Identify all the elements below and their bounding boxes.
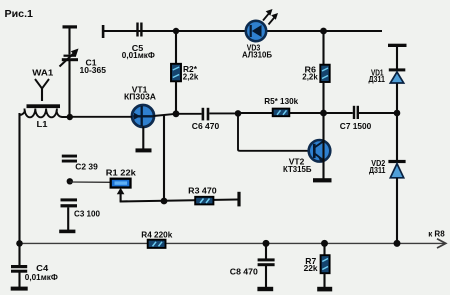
node wiper line / drain branch: [161, 198, 168, 205]
wire C1 bottom lead down to L1 node: [68, 61, 70, 117]
wire VT1 source lead: [142, 127, 144, 150]
wire R6 bottom lead: [322, 82, 324, 113]
resistor R4: [148, 240, 166, 248]
svg-text:к R8: к R8: [428, 229, 445, 239]
wire VT2 base: [238, 113, 310, 150]
wire node to C7: [324, 112, 353, 114]
svg-text:C6 470: C6 470: [192, 121, 220, 131]
wire C7 to VD node: [359, 112, 397, 114]
node L1/C1/VT1 gate: [67, 114, 73, 120]
wire C4 bottom lead: [18, 273, 20, 288]
wire node to R1: [70, 181, 111, 183]
ground C3 branch: [59, 230, 75, 234]
bottom rail arrow to R8: [437, 239, 446, 248]
wire R5 to node: [289, 112, 323, 114]
wire R6 top lead: [322, 31, 324, 65]
node R7 / rail: [321, 240, 328, 247]
node C6 / R5 / VT2 base: [235, 110, 242, 117]
node C8 / rail: [263, 240, 270, 247]
svg-text:R4 220k: R4 220k: [141, 229, 172, 239]
wire node to C6: [176, 113, 202, 115]
resistor R1 (trimmer): [111, 179, 131, 188]
capacitor C5: [136, 23, 142, 37]
wire C8 bottom lead: [265, 266, 267, 287]
ground VT2: [313, 178, 332, 182]
capacitor C6: [202, 108, 210, 121]
antenna WA1: [35, 79, 49, 101]
wire R1 wiper to R3: [120, 200, 238, 202]
svg-text:Д311: Д311: [369, 166, 386, 175]
svg-text:10-365: 10-365: [80, 65, 107, 75]
svg-text:0,01мкФ: 0,01мкФ: [122, 50, 155, 60]
svg-text:C2 39: C2 39: [75, 161, 98, 171]
wire R7 top lead: [323, 243, 325, 255]
wire C6 to R5 node: [209, 112, 238, 114]
capacitor C7: [353, 106, 359, 119]
R1 wiper arrow: [117, 188, 125, 202]
wire R2 bottom lead: [175, 81, 177, 114]
capacitor C3: [61, 198, 78, 207]
capacitor C2: [62, 155, 77, 163]
wire C3 bottom lead: [67, 207, 69, 230]
svg-text:C3 100: C3 100: [74, 209, 100, 219]
resistor R6: [320, 65, 329, 82]
svg-text:C7 1500: C7 1500: [340, 121, 372, 131]
resistor R2: [171, 64, 181, 82]
ground R7: [317, 287, 332, 292]
svg-text:Д311: Д311: [369, 75, 386, 84]
svg-text:L1: L1: [37, 119, 48, 129]
wire VD1 top lead: [396, 47, 398, 69]
wire VD1 bottom lead: [396, 84, 398, 114]
wire VT1 gate from tank: [72, 116, 132, 118]
wire bottom rail: [20, 242, 446, 244]
node C4 / rail: [16, 240, 23, 247]
ground C8: [257, 287, 273, 291]
wire C1 upper lead: [68, 28, 70, 55]
capacitor C8: [258, 258, 275, 266]
wire C4 top lead: [18, 243, 20, 265]
svg-text:R5* 130k: R5* 130k: [264, 96, 298, 106]
wire VT1 drain to node: [154, 114, 177, 116]
svg-text:Рис.1: Рис.1: [5, 8, 34, 20]
LED VD3: [246, 9, 278, 41]
node VT1 drain / R2 / C6: [173, 110, 180, 117]
node VD1 / VD2 / C7: [394, 110, 401, 117]
svg-text:КТ315Б: КТ315Б: [283, 164, 312, 174]
svg-text:WA1: WA1: [32, 68, 53, 78]
top rail terminal tick: [102, 25, 105, 38]
wire drain branch down to R1 wiper line: [163, 115, 165, 202]
node R2 top: [173, 28, 179, 34]
resistor R3: [195, 197, 213, 205]
svg-text:АЛ310Б: АЛ310Б: [242, 49, 272, 59]
svg-text:22k: 22k: [304, 263, 318, 273]
wire VD2 leads: [396, 113, 398, 243]
node R6 top: [320, 28, 327, 35]
ground C4: [11, 287, 28, 291]
diode VD2: [388, 160, 405, 178]
svg-text:КП303А: КП303А: [124, 92, 156, 102]
inductor L1: [20, 104, 69, 117]
node C2/C3/R1: [67, 178, 73, 184]
wire R2 top lead: [175, 31, 177, 64]
wire R7 bottom lead: [323, 273, 325, 287]
wire C8 top lead: [265, 243, 267, 258]
svg-text:2,2k: 2,2k: [302, 72, 318, 82]
wire top rail: [103, 30, 382, 32]
wire R5: [238, 112, 273, 114]
wire left rail: [18, 113, 20, 244]
resistor R5: [273, 109, 290, 117]
svg-text:R1 22k: R1 22k: [106, 168, 136, 178]
svg-text:C8 470: C8 470: [230, 267, 258, 277]
node R6 / R5 / C7 / VT2 collector: [320, 110, 327, 117]
resistor R7: [321, 255, 330, 273]
svg-text:R3 470: R3 470: [188, 186, 217, 196]
R3 wire end terminal tick: [237, 192, 240, 207]
diode VD1: [389, 68, 406, 83]
transistor VT2: [309, 140, 331, 163]
wire VT2 collector-emitter column: [322, 113, 324, 179]
node VD2 / rail: [394, 240, 401, 247]
ground VT1: [136, 148, 152, 152]
capacitor C1 top terminal bar: [63, 25, 78, 28]
svg-text:2,2k: 2,2k: [183, 72, 199, 82]
transistor VT1: [132, 105, 154, 127]
diode VD1 terminal bar: [388, 44, 407, 47]
capacitor C4: [11, 265, 27, 273]
capacitor C1 (variable, 10-365): [60, 49, 79, 67]
svg-text:0,01мкФ: 0,01мкФ: [25, 272, 58, 282]
